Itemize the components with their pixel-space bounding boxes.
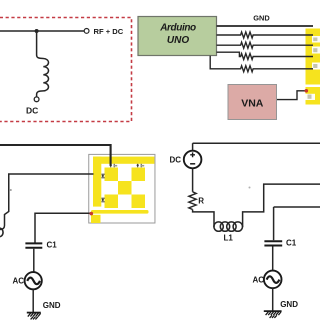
svg-text:DC: DC	[26, 106, 38, 116]
svg-text:GND: GND	[280, 300, 298, 309]
svg-text:C1: C1	[47, 240, 58, 249]
svg-text:VNA: VNA	[241, 97, 264, 109]
svg-text:C1: C1	[286, 238, 297, 247]
svg-text:DC: DC	[170, 156, 182, 165]
svg-text:Arduino: Arduino	[159, 23, 196, 34]
svg-text:RF + DC: RF + DC	[94, 27, 124, 36]
svg-text:AC: AC	[253, 275, 265, 284]
svg-text:AC: AC	[13, 277, 25, 286]
svg-text:UNO: UNO	[167, 35, 189, 46]
svg-text:GND: GND	[43, 301, 61, 310]
svg-text:R: R	[198, 196, 204, 205]
svg-text:GND: GND	[253, 14, 270, 23]
svg-text:L1: L1	[224, 234, 234, 243]
